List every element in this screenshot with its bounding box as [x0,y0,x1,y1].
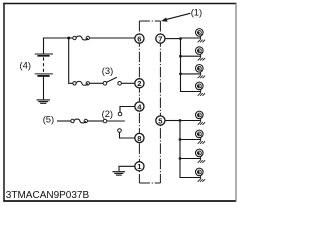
ECU pin 8 [135,133,144,142]
wire pin 1 to ground [119,166,135,171]
ultrasonic sensor S2 [196,47,204,55]
svg-text:(4): (4) [20,59,31,70]
branch wire to sensor S3 [181,73,201,75]
svg-text:3TMACAN9P037B: 3TMACAN9P037B [6,190,90,201]
sensor ground stub [200,118,202,122]
node: bus junction S5 [179,119,182,122]
sensor chassis ground hatch [198,160,205,163]
switch (3) [103,77,121,85]
node: bus junction S7 [179,157,182,160]
ultrasonic sensor S6 [196,130,204,138]
node: bus junction S3 [179,73,182,76]
ultrasonic sensor S1 [196,29,204,37]
branch wire to sensor S6 [180,139,201,141]
switch (2) upper contact [118,112,122,116]
ECU pin 4 [135,102,144,111]
ultrasonic sensor S5 [196,111,204,119]
sensor chassis ground hatch [198,58,205,61]
wire pin 5 to sensor bus [165,120,180,122]
branch wire to sensor S7 [180,158,201,160]
ultrasonic sensor S4 [196,82,204,90]
battery inter-cell dashed link [43,57,45,73]
wire battery positive to rail [44,38,69,54]
wire fuse F3 to switch (3) [90,82,104,84]
branch wire to sensor S1 [181,37,201,39]
sensor ground stub [200,175,202,179]
ultrasonic sensor S3 [196,65,204,73]
wire switch (3) to pin 2 [121,82,134,84]
ECU pin 6 [135,34,144,43]
sensor ground stub [200,72,202,76]
switch (2) common contact and blade [103,119,125,123]
node: bus junction S2 [179,55,182,58]
sensor chassis ground hatch [198,141,205,144]
svg-text:7: 7 [158,34,162,43]
ECU pin 5 [156,116,165,125]
branch wire to sensor S5 [180,120,201,122]
ground (pin 1) [112,172,125,175]
branch wire to sensor S2 [181,55,201,57]
sensor ground stub [200,137,202,141]
svg-text:2: 2 [137,79,141,88]
ECU (1) dash-dot outline [139,21,160,183]
wire fuse F5 to switch (2) [88,120,104,122]
battery (4) plates [35,54,53,76]
sensor ground stub [200,156,202,160]
fuse F1 (feed to pin 6) [73,36,90,40]
sensor chassis ground hatch [198,122,205,125]
svg-text:(5): (5) [43,113,54,124]
svg-text:6: 6 [137,34,141,43]
sensor bus (top group) [181,38,201,92]
leader arrow to ECU outline [166,13,191,19]
wire rail to fuse F1 [69,37,73,39]
sensor ground stub [200,36,202,40]
wire battery negative to ground [43,76,45,99]
sensor ground stub [200,54,202,58]
ultrasonic sensor S7 [196,149,204,157]
svg-text:(1): (1) [191,7,202,18]
fuse F3 [73,81,90,85]
ECU pin 2 [135,79,144,88]
svg-text:(3): (3) [102,65,113,76]
wire rail down to fuse row (3) [69,38,73,83]
sensor bus (bottom group) [180,121,201,178]
svg-text:8: 8 [137,134,141,143]
wire upper contact to pin 4 [120,107,135,113]
border frame [3,3,236,202]
fuse F5 [71,119,88,123]
ground (battery) [37,100,51,103]
sensor chassis ground hatch [198,76,205,79]
node: rail junction [67,37,70,40]
wire (5) to fuse F5 [57,120,71,122]
wire pin 7 to sensor bus [165,38,181,40]
node: bus junction S1 [179,37,182,40]
svg-text:(2): (2) [102,108,113,119]
node: bus junction S6 [179,138,182,141]
sensor chassis ground hatch [198,40,205,43]
wire lower contact to pin 8 [120,132,135,138]
sensor chassis ground hatch [198,179,205,182]
wire fuse F1 to pin 6 [90,37,135,39]
ECU pin 1 [135,162,144,171]
ultrasonic sensor S8 [196,168,204,176]
sensor ground stub [200,89,202,93]
sensor chassis ground hatch [198,93,205,96]
switch (2) lower contact [118,129,122,133]
ECU pin 7 [156,34,165,43]
